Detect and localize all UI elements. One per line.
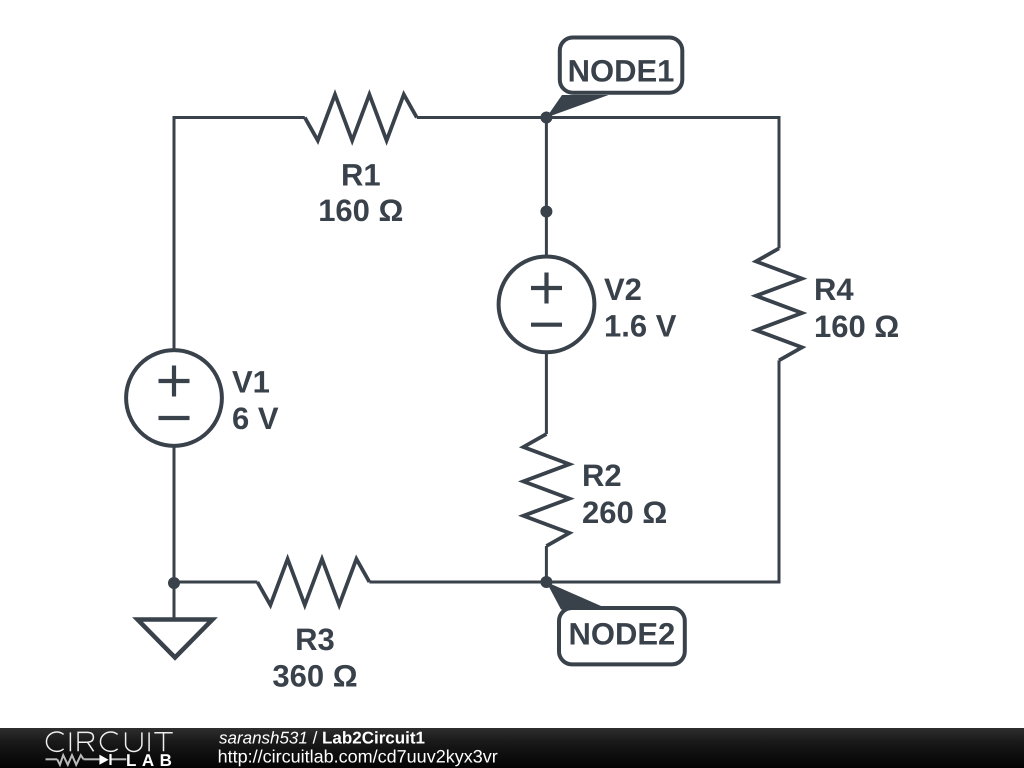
svg-text:R3: R3 [295,622,335,657]
voltage source V2 [499,257,595,353]
wire top-middle segment [417,116,547,119]
junction dot ground [168,577,180,589]
wire bottom-left segment [174,446,257,582]
resistor R3 [257,559,369,605]
svg-text:R2: R2 [582,458,622,493]
svg-text:160 Ω: 160 Ω [814,309,899,344]
node NODE1 callout [546,38,682,118]
wire left-top segment [174,118,305,351]
svg-text:NODE2: NODE2 [568,617,675,652]
wire V2 to R2 [545,352,548,434]
voltage source V1 [126,350,222,446]
svg-text:saransh531 / Lab2Circuit1: saransh531 / Lab2Circuit1 [219,729,425,748]
wire node1 to V2 [545,118,548,257]
svg-text:R1: R1 [341,157,381,192]
junction dot node1 [540,112,552,124]
svg-text:R4: R4 [814,272,854,307]
wire bottom-middle segment [369,581,546,584]
svg-text:http://circuitlab.com/cd7uuv2k: http://circuitlab.com/cd7uuv2kyx3vr [218,747,498,767]
wire top-right segment [546,118,779,249]
svg-text:V1: V1 [232,365,270,400]
svg-text:6 V: 6 V [232,401,279,436]
junction dot above V2 [540,206,552,218]
wire R2 to node2 [545,546,548,582]
svg-text:360 Ω: 360 Ω [272,659,357,694]
svg-text:NODE1: NODE1 [568,53,675,88]
node NODE2 callout [546,582,684,664]
resistor R4 [756,248,802,360]
svg-text:1.6 V: 1.6 V [604,309,677,344]
logo CIRCUIT text [46,732,172,751]
footer bar [0,728,1024,768]
wire ground stub [173,582,176,620]
resistor R2 [523,434,569,546]
svg-text:160 Ω: 160 Ω [318,193,403,228]
svg-text:V2: V2 [604,272,642,307]
logo wire with resistor and diode [46,755,127,765]
ground [138,620,213,658]
logo diode [99,754,110,765]
svg-text:LAB: LAB [126,751,177,768]
svg-text:260 Ω: 260 Ω [582,495,667,530]
resistor R1 [305,95,417,141]
junction dot node2 [540,576,552,588]
wire right-bottom segment [546,360,779,582]
